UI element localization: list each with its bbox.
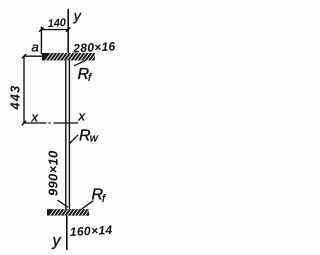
svg-text:x: x [78,109,86,124]
x axis: segment crossing web [54,122,79,124]
y axis bottom segment [66,216,68,250]
leader for Rw [69,135,78,144]
leader for bottom Rf [79,201,94,212]
tick top of 443 [22,54,26,58]
y axis top segment [67,9,69,54]
svg-text:a: a [32,40,39,55]
svg-text:990×10: 990×10 [46,150,61,196]
svg-text:y: y [52,233,62,250]
svg-text:280×16: 280×16 [72,39,116,55]
tick left of 140 [39,27,43,31]
web (two vertical lines) [65,61,67,210]
svg-text:x: x [31,110,39,125]
top flange 280x16 (hatched) [42,52,97,63]
leader for top Rf [74,60,86,66]
extension line 140 left [40,27,42,55]
svg-text:443: 443 [9,84,23,110]
dimension line 140 [41,29,68,31]
svg-text:160×14: 160×14 [69,223,112,239]
svg-text:140: 140 [47,17,67,30]
svg-text:w: w [90,133,99,145]
svg-text:y: y [73,8,82,24]
dimension line 443 [23,56,25,123]
x axis: left long segment [24,122,47,124]
tick bottom of 443 [22,121,26,125]
bottom flange 160x14 (hatched) [47,207,91,218]
a extension line [24,55,43,57]
leader for 990x10 [58,200,68,207]
x axis: center dot [49,122,51,124]
tick right of 140 [66,27,70,31]
